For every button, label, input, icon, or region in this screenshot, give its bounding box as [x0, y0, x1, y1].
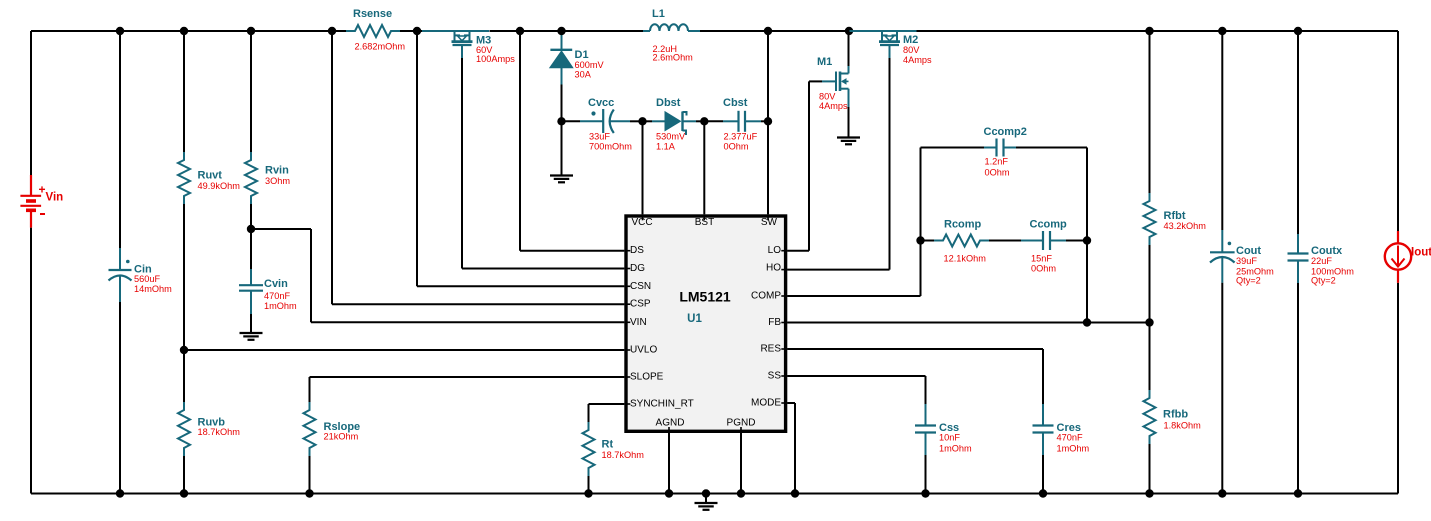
svg-text:BST: BST: [695, 217, 714, 228]
transistor M2: [850, 31, 933, 65]
wire DG: [462, 58, 624, 269]
wire VCC: [642, 121, 644, 214]
svg-text:Cvcc: Cvcc: [588, 97, 614, 109]
svg-text:LO: LO: [768, 245, 782, 256]
svg-text:18.7kOhm: 18.7kOhm: [602, 450, 645, 460]
resistor Rcomp: [921, 218, 1022, 263]
wire FB: [787, 322, 1149, 324]
svg-text:1.1A: 1.1A: [656, 142, 676, 152]
capacitor Cout: [1210, 31, 1274, 494]
svg-text:UVLO: UVLO: [630, 345, 657, 356]
svg-text:VIN: VIN: [630, 317, 647, 328]
svg-text:700mOhm: 700mOhm: [589, 142, 632, 152]
wire UVLO: [184, 349, 624, 351]
svg-text:Ruvt: Ruvt: [198, 170, 223, 182]
svg-text:33uF: 33uF: [589, 132, 610, 142]
svg-text:30A: 30A: [575, 70, 592, 80]
junction UVLO: [180, 346, 188, 354]
resistor Rfbb: [1144, 323, 1202, 494]
svg-text:Dbst: Dbst: [656, 97, 681, 109]
ground M1: [837, 138, 860, 145]
wire CSP: [332, 31, 624, 304]
resistor Rfbt: [1144, 31, 1207, 323]
junction Rfbb bottom: [1145, 489, 1153, 497]
svg-text:SS: SS: [768, 371, 782, 382]
junction Rsense right: [413, 27, 421, 35]
junction Coutx bottom: [1294, 489, 1302, 497]
svg-text:Rt: Rt: [602, 439, 614, 451]
ground Cvin: [240, 333, 263, 340]
svg-text:SYNCHIN_RT: SYNCHIN_RT: [630, 399, 694, 410]
svg-text:Qty=2: Qty=2: [1311, 275, 1336, 285]
junction Cvcc right: [638, 117, 646, 125]
svg-text:10nF: 10nF: [939, 433, 960, 443]
svg-text:CSP: CSP: [630, 299, 651, 310]
current source Iout: [1385, 231, 1431, 283]
svg-text:80V: 80V: [819, 92, 836, 102]
svg-text:14mOhm: 14mOhm: [134, 284, 172, 294]
junction Cres bottom: [1039, 489, 1047, 497]
svg-text:470nF: 470nF: [264, 291, 290, 301]
wire right edge: [1397, 31, 1399, 494]
junction PGND: [737, 489, 745, 497]
svg-text:Iout: Iout: [1411, 246, 1431, 258]
wire SS: [787, 376, 925, 404]
svg-text:600mV: 600mV: [575, 60, 605, 70]
svg-text:4Amps: 4Amps: [819, 101, 848, 111]
transistor M1: [817, 31, 849, 138]
junction M1 drain: [845, 27, 853, 35]
capacitor Coutx: [1288, 31, 1355, 494]
wire CSN: [417, 31, 624, 286]
IC U1 LM5121 controller: [624, 214, 787, 433]
junction Rcomp left: [916, 236, 924, 244]
capacitor Ccomp2: [921, 126, 1088, 178]
svg-text:18.7kOhm: 18.7kOhm: [198, 427, 241, 437]
svg-text:Rsense: Rsense: [353, 8, 392, 20]
resistor Ruvb: [178, 350, 240, 494]
svg-text:CSN: CSN: [630, 281, 651, 292]
voltage source Vin: [20, 175, 63, 228]
wire AGND: [668, 433, 670, 494]
svg-text:+: +: [38, 182, 45, 196]
resistor Rt: [583, 422, 645, 494]
junction L1 right: [764, 27, 772, 35]
capacitor Cres: [1033, 404, 1090, 494]
svg-text:470nF: 470nF: [1057, 433, 1083, 443]
junction ground: [702, 489, 710, 497]
junction D1 top: [557, 27, 565, 35]
resistor Rslope: [304, 377, 361, 494]
svg-text:1.8kOhm: 1.8kOhm: [1164, 421, 1202, 431]
wire comp right vertical: [1086, 148, 1088, 323]
wire PGND: [740, 433, 742, 494]
capacitor Cbst: [704, 97, 768, 152]
junction D1 bottom: [557, 117, 565, 125]
junction Ruvt top: [180, 27, 188, 35]
svg-text:22uF: 22uF: [1311, 256, 1332, 266]
wire ground stem: [705, 494, 707, 504]
svg-text:DG: DG: [630, 263, 645, 274]
svg-text:DS: DS: [630, 245, 644, 256]
resistor Rvin: [245, 31, 290, 229]
svg-text:Qty=2: Qty=2: [1236, 275, 1261, 285]
svg-text:HO: HO: [766, 263, 781, 274]
svg-text:21kOhm: 21kOhm: [324, 432, 359, 442]
wire bottom rail: [31, 493, 1398, 495]
wire SW: [767, 31, 769, 214]
svg-text:Rcomp: Rcomp: [944, 218, 982, 230]
svg-text:VCC: VCC: [632, 217, 653, 228]
svg-text:SLOPE: SLOPE: [630, 372, 664, 383]
svg-text:1mOhm: 1mOhm: [264, 301, 297, 311]
junction Cout bottom: [1218, 489, 1226, 497]
svg-text:FB: FB: [768, 317, 781, 328]
capacitor Cvin: [239, 229, 297, 333]
svg-text:560uF: 560uF: [134, 274, 160, 284]
junction Rvin top: [247, 27, 255, 35]
capacitor Css: [915, 404, 972, 494]
svg-text:LM5121: LM5121: [679, 289, 731, 305]
wire Rvin to VIN pin: [251, 229, 624, 322]
svg-text:530mV: 530mV: [656, 132, 686, 142]
junction Ccomp right: [1083, 236, 1091, 244]
svg-text:49.9kOhm: 49.9kOhm: [198, 181, 241, 191]
wire SYNCHIN_RT: [589, 404, 625, 422]
junction DS top: [516, 27, 524, 35]
wire BST: [703, 121, 705, 214]
junction Cin top: [116, 27, 124, 35]
junction Cin bottom: [116, 489, 124, 497]
svg-text:M1: M1: [817, 56, 832, 68]
svg-text:3Ohm: 3Ohm: [265, 176, 290, 186]
junction Ruvb bottom: [180, 489, 188, 497]
junction FB-Rfbt: [1145, 318, 1153, 326]
ground main: [695, 503, 718, 510]
svg-text:0Ohm: 0Ohm: [1031, 264, 1056, 274]
svg-text:0Ohm: 0Ohm: [724, 142, 749, 152]
svg-text:Vin: Vin: [46, 191, 64, 203]
junction Cbst right: [764, 117, 772, 125]
svg-text:2.377uF: 2.377uF: [724, 132, 758, 142]
resistor Rsense: [346, 8, 405, 52]
svg-text:2.6mOhm: 2.6mOhm: [653, 53, 694, 63]
wire D1 to ground: [561, 121, 563, 175]
svg-text:RES: RES: [760, 344, 781, 355]
svg-text:2.682mOhm: 2.682mOhm: [355, 42, 406, 52]
junction Css bottom: [921, 489, 929, 497]
transistor M3: [422, 31, 515, 64]
diode Dbst: [643, 97, 705, 152]
wire SLOPE: [310, 376, 625, 378]
svg-text:80V: 80V: [903, 45, 920, 55]
svg-text:4Amps: 4Amps: [903, 55, 932, 65]
ground D1: [550, 176, 573, 183]
svg-text:15nF: 15nF: [1031, 253, 1052, 263]
wire COMP: [787, 148, 920, 297]
svg-text:SW: SW: [761, 217, 778, 228]
wire RES: [787, 349, 1043, 404]
svg-text:43.2kOhm: 43.2kOhm: [1164, 221, 1207, 231]
junction AGND: [665, 489, 673, 497]
junction Cout top: [1218, 27, 1226, 35]
junction CSP top: [328, 27, 336, 35]
capacitor Cin: [109, 31, 173, 494]
wire HO to M2 gate: [787, 58, 889, 270]
svg-text:PGND: PGND: [727, 418, 756, 429]
wire left edge: [30, 31, 32, 494]
svg-text:L1: L1: [652, 8, 665, 20]
junction Dbst right: [700, 117, 708, 125]
svg-text:Cbst: Cbst: [723, 97, 748, 109]
node Rvin-Cvin: [247, 225, 255, 233]
svg-text:Rfbb: Rfbb: [1163, 409, 1188, 421]
junction MODE bottom: [791, 489, 799, 497]
inductor L1: [643, 8, 700, 63]
capacitor Ccomp: [1021, 218, 1087, 273]
svg-text:COMP: COMP: [751, 291, 781, 302]
svg-text:MODE: MODE: [751, 398, 781, 409]
svg-text:1.2nF: 1.2nF: [985, 157, 1009, 167]
svg-text:1mOhm: 1mOhm: [1057, 444, 1090, 454]
svg-text:Cvin: Cvin: [264, 278, 288, 290]
wire MODE: [787, 403, 795, 494]
resistor Ruvt: [178, 31, 240, 350]
svg-text:12.1kOhm: 12.1kOhm: [944, 253, 987, 263]
svg-text:Ccomp: Ccomp: [1030, 218, 1068, 230]
svg-text:AGND: AGND: [656, 418, 685, 429]
wire top rail: [31, 30, 1398, 32]
svg-text:1mOhm: 1mOhm: [939, 444, 972, 454]
svg-text:39uF: 39uF: [1236, 256, 1257, 266]
capacitor Cvcc: [562, 97, 643, 152]
svg-text:0Ohm: 0Ohm: [985, 168, 1010, 178]
junction Rt bottom: [584, 489, 592, 497]
junction Coutx top: [1294, 27, 1302, 35]
junction Rslope bottom: [305, 489, 313, 497]
svg-text:100Amps: 100Amps: [476, 54, 515, 64]
junction comp-FB: [1083, 318, 1091, 326]
junction Rfbt top: [1145, 27, 1153, 35]
svg-text:U1: U1: [687, 313, 702, 325]
diode D1: [550, 31, 605, 121]
svg-text:Rvin: Rvin: [265, 165, 289, 177]
wire LO to M1 gate: [787, 81, 822, 250]
svg-text:Ccomp2: Ccomp2: [984, 126, 1027, 138]
wire DS: [520, 31, 624, 251]
